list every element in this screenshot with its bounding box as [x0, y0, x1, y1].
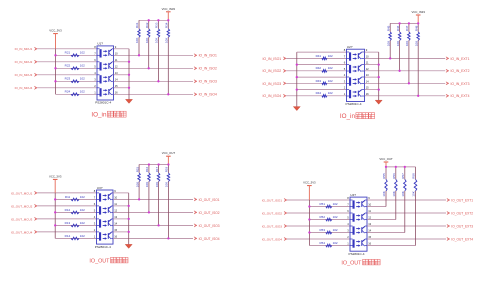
- svg-text:VCC_OUT: VCC_OUT: [162, 151, 176, 155]
- port IO_OUT_EXT4: [447, 237, 473, 241]
- pin numbers left 8..1: [347, 196, 349, 246]
- svg-text:IO_IN_ISO2: IO_IN_ISO2: [199, 67, 217, 71]
- resistor R17 10K: [155, 165, 160, 188]
- wire U pin to pull-up column: [367, 232, 405, 234]
- svg-text:16: 16: [114, 235, 117, 239]
- svg-text:R51: R51: [319, 202, 325, 206]
- wire U pin to IO_OUT_EXT2: [367, 212, 446, 214]
- wire resistor to output row: [167, 37, 169, 94]
- wire rail to resistor R52 row: [309, 219, 350, 221]
- svg-text:10: 10: [115, 51, 118, 55]
- junction: [157, 19, 159, 21]
- svg-text:IO_IN_MCU4: IO_IN_MCU4: [15, 86, 33, 90]
- svg-text:7: 7: [347, 203, 349, 207]
- junction: [398, 22, 400, 24]
- resistor R51 102: [319, 202, 337, 208]
- port IO_OUT_MCU1: [11, 191, 37, 195]
- optocoupler U2 PS2801C-4: [346, 45, 365, 106]
- wire U pin to bus: [114, 87, 130, 89]
- svg-text:PS2801C-4: PS2801C-4: [95, 245, 111, 249]
- junction: [54, 198, 56, 200]
- ground: [375, 100, 382, 104]
- wire U pin to bus: [114, 48, 130, 50]
- resistor R21 102: [65, 51, 85, 57]
- svg-text:R41: R41: [316, 54, 322, 58]
- svg-text:1: 1: [344, 92, 346, 96]
- junction: [296, 63, 298, 65]
- wire rail to resistor R22 row: [56, 67, 98, 69]
- resistor R11 102: [65, 195, 85, 201]
- wire U pin to IO_OUT_EXT1: [367, 199, 446, 201]
- svg-text:R13: R13: [65, 221, 71, 225]
- svg-text:102: 102: [333, 202, 338, 206]
- resistor R44 102: [316, 91, 333, 97]
- optocoupler channel 4: LED + phototransistor: [97, 232, 114, 241]
- svg-text:R16: R16: [145, 166, 149, 172]
- port IO_OUT_MCU3: [11, 217, 37, 221]
- svg-text:5: 5: [94, 64, 96, 68]
- wire resistor to output row: [399, 40, 401, 70]
- junction: [296, 88, 298, 90]
- svg-text:102: 102: [80, 208, 85, 212]
- port IO_IN_MCU4: [15, 86, 38, 90]
- port IO_OUT_ISO1: [262, 198, 287, 202]
- svg-text:R53: R53: [319, 228, 325, 232]
- wire rail to resistor R12 row: [55, 211, 96, 213]
- svg-text:102: 102: [80, 51, 85, 55]
- svg-text:10K: 10K: [165, 182, 169, 187]
- resistor R48 10K: [414, 23, 419, 46]
- wire U pin to IO_OUT_ISO2: [113, 211, 193, 213]
- svg-text:102: 102: [80, 90, 85, 94]
- svg-text:4: 4: [94, 215, 96, 219]
- svg-text:12: 12: [115, 64, 118, 68]
- svg-text:9: 9: [115, 45, 117, 49]
- port IO_IN_MCU1: [15, 47, 38, 51]
- ground: [125, 244, 132, 248]
- pin numbers left 8..1: [344, 48, 346, 96]
- svg-text:IO_IN_ISO1: IO_IN_ISO1: [199, 54, 217, 58]
- wire rail to resistor R51 row: [309, 206, 350, 208]
- svg-text:R42: R42: [316, 66, 322, 70]
- port IO_IN_MCU2: [15, 60, 38, 64]
- port IO_IN_ISO4: [262, 94, 286, 98]
- junction: [148, 211, 150, 213]
- svg-text:4: 4: [347, 222, 349, 226]
- svg-text:10K: 10K: [135, 182, 139, 187]
- svg-text:R15: R15: [135, 166, 139, 172]
- svg-text:4: 4: [344, 73, 346, 77]
- resistor R54 102: [319, 241, 337, 247]
- optocoupler channel 1: LED + phototransistor: [97, 193, 114, 202]
- svg-text:IO_IN_MCU3: IO_IN_MCU3: [15, 73, 33, 77]
- svg-text:10K: 10K: [412, 191, 416, 196]
- svg-text:R33: R33: [155, 22, 159, 28]
- svg-text:6: 6: [347, 209, 349, 213]
- optocoupler channel 1: LED + phototransistor: [347, 52, 365, 61]
- wire rail to resistor R23 row: [56, 80, 98, 82]
- svg-text:VCC_OUT: VCC_OUT: [379, 157, 393, 161]
- resistor R34 10K: [165, 20, 170, 43]
- junction: [389, 57, 391, 59]
- resistor R52 102: [319, 215, 337, 221]
- resistor R15 10K: [135, 165, 140, 188]
- svg-text:4: 4: [94, 71, 96, 75]
- svg-text:3: 3: [344, 79, 346, 83]
- svg-text:102: 102: [328, 91, 333, 95]
- svg-text:5: 5: [94, 209, 96, 213]
- junction: [54, 80, 56, 82]
- ground: [293, 107, 300, 111]
- port IO_IN_ISO1: [194, 54, 217, 58]
- pin numbers left 8..1: [94, 189, 96, 239]
- wire U pin to bus: [365, 89, 379, 91]
- svg-text:IO_in: IO_in: [340, 113, 356, 120]
- wire IO_IN_ISO3 to U pin: [286, 82, 346, 84]
- svg-text:10K: 10K: [165, 38, 169, 43]
- wire resistor to emitter-follower collector: [385, 190, 387, 192]
- junction: [54, 67, 56, 69]
- junction: [148, 67, 150, 69]
- port IO_OUT_ISO3: [262, 224, 287, 228]
- svg-text:5: 5: [347, 216, 349, 220]
- wire U pin to bus: [365, 51, 379, 53]
- svg-text:R55: R55: [382, 173, 386, 179]
- resistor R24 102: [65, 90, 85, 96]
- svg-text:IO_OUT_EXT2: IO_OUT_EXT2: [451, 211, 473, 215]
- wire U pin to bus: [113, 218, 129, 220]
- wire pull-up rail: [139, 164, 168, 166]
- wire pull-up rail: [386, 166, 416, 168]
- svg-text:U1?: U1?: [97, 42, 103, 46]
- junction: [138, 198, 140, 200]
- port IO_OUT_ISO1: [194, 198, 220, 202]
- svg-text:R48: R48: [414, 25, 418, 31]
- junction: [54, 224, 56, 226]
- power VCC_OUT: [379, 157, 393, 167]
- svg-text:R43: R43: [316, 79, 322, 83]
- wire IO_OUT_MCU2 to U pin: [37, 205, 96, 207]
- port IO_IN_EXT1: [446, 57, 470, 61]
- svg-text:13: 13: [366, 73, 369, 77]
- resistor R33 10K: [155, 20, 160, 43]
- node label caption IO_in-isolation-pre: [91, 111, 126, 118]
- svg-text:VCC_3V3: VCC_3V3: [49, 29, 62, 33]
- optocoupler channel 1: LED + phototransistor: [97, 49, 114, 58]
- svg-text:R34: R34: [165, 22, 169, 28]
- wire VCC rail vertical: [55, 49, 57, 95]
- resistor R53 102: [319, 228, 337, 234]
- wire U pin to IO_IN_ISO2: [114, 67, 194, 69]
- optocoupler channel 3: LED + phototransistor: [350, 226, 367, 235]
- svg-text:IO_OUT_ISO1: IO_OUT_ISO1: [262, 198, 283, 202]
- svg-text:5: 5: [344, 67, 346, 71]
- svg-text:12: 12: [368, 216, 371, 220]
- svg-text:2: 2: [347, 235, 349, 239]
- resistor R12 102: [65, 208, 85, 214]
- svg-text:6: 6: [94, 202, 96, 206]
- junction: [157, 163, 159, 165]
- resistor R32 10K: [145, 20, 150, 43]
- wire rail to resistor R53 row: [309, 232, 350, 234]
- power VCC_3V3: [303, 181, 316, 200]
- svg-text:10K: 10K: [145, 38, 149, 43]
- wire IO_OUT_ISO4 to U pin: [287, 238, 350, 240]
- svg-text:R11: R11: [65, 195, 71, 199]
- svg-text:VCC_3V3: VCC_3V3: [303, 181, 316, 185]
- wire resistor to output row: [417, 40, 419, 95]
- svg-text:11: 11: [366, 61, 369, 65]
- wire emitter common bus: [128, 193, 130, 245]
- svg-text:3: 3: [94, 77, 96, 81]
- svg-text:13: 13: [114, 215, 117, 219]
- svg-text:6: 6: [344, 61, 346, 65]
- wire U pin to pull-up column: [367, 245, 416, 247]
- port IO_IN_ISO2: [194, 67, 217, 71]
- junction: [308, 218, 310, 220]
- svg-text:14: 14: [114, 222, 117, 226]
- svg-text:9: 9: [366, 48, 368, 52]
- junction: [404, 166, 406, 168]
- resistor R45 10K: [386, 23, 391, 46]
- junction: [398, 70, 400, 72]
- wire resistor to output row: [167, 182, 169, 239]
- wire IO_OUT_MCU1 to U pin: [37, 192, 96, 194]
- port IO_IN_ISO2: [262, 69, 286, 73]
- svg-text:R31: R31: [135, 22, 139, 28]
- svg-text:10K: 10K: [396, 41, 400, 46]
- svg-text:PS2801C-4: PS2801C-4: [349, 252, 365, 256]
- wire U pin to IO_IN_EXT2: [365, 70, 446, 72]
- junction: [128, 87, 130, 89]
- svg-text:R32: R32: [145, 22, 149, 28]
- node label caption IO_OUT-isolation-pre: [89, 257, 128, 264]
- svg-text:8: 8: [94, 45, 96, 49]
- wire U pin to bus: [113, 205, 129, 207]
- svg-text:11: 11: [115, 58, 118, 62]
- wire IO_IN_ISO1 to U pin: [286, 57, 346, 59]
- wire rail to resistor R14 row: [55, 237, 96, 239]
- optocoupler U4 PS2801C-4: [349, 193, 368, 256]
- svg-text:13: 13: [368, 222, 371, 226]
- junction: [385, 166, 387, 168]
- svg-text:IO_IN_MCU1: IO_IN_MCU1: [15, 47, 33, 51]
- wire emitter common bus: [128, 49, 130, 100]
- wire emitter common bus: [378, 52, 380, 100]
- wire bus to U pin: [297, 64, 347, 66]
- svg-text:12: 12: [114, 209, 117, 213]
- svg-text:IO_IN_ISO3: IO_IN_ISO3: [262, 82, 281, 86]
- svg-text:PS2801C-4: PS2801C-4: [95, 101, 111, 105]
- svg-text:IO_IN_EXT4: IO_IN_EXT4: [451, 94, 470, 98]
- wire IO_OUT_ISO1 to U pin: [287, 199, 350, 201]
- svg-text:9: 9: [114, 189, 116, 193]
- port IO_OUT_ISO4: [194, 237, 220, 241]
- svg-text:IO_OUT_ISO3: IO_OUT_ISO3: [262, 224, 283, 228]
- svg-text:IO_OUT_EXT4: IO_OUT_EXT4: [451, 237, 473, 241]
- port IO_IN_EXT2: [446, 69, 470, 73]
- svg-text:IO_OUT_EXT3: IO_OUT_EXT3: [451, 224, 473, 228]
- port IO_OUT_ISO2: [194, 211, 220, 215]
- wire rail to resistor R21 row: [56, 54, 98, 56]
- wire resistor to output row: [138, 182, 140, 200]
- svg-text:10: 10: [368, 203, 371, 207]
- wire IO_IN_ISO4 to U pin: [286, 95, 346, 97]
- pin numbers right 9..16: [114, 189, 117, 239]
- optocoupler channel 4: LED + phototransistor: [97, 88, 114, 97]
- svg-text:102: 102: [333, 215, 338, 219]
- svg-text:R22: R22: [65, 64, 71, 68]
- optocoupler channel 1: LED + phototransistor: [350, 200, 367, 209]
- wire resistor to output row: [408, 40, 410, 83]
- junction: [395, 166, 397, 168]
- resistor R14 102: [65, 234, 85, 240]
- power VCC_IN33: [162, 7, 176, 20]
- junction: [308, 205, 310, 207]
- resistor R22 102: [65, 64, 85, 70]
- svg-text:15: 15: [115, 84, 118, 88]
- wire bus to U pin: [297, 76, 347, 78]
- wire IO_OUT_MCU3 to U pin: [37, 218, 96, 220]
- svg-text:R56: R56: [392, 173, 396, 179]
- svg-text:12: 12: [366, 67, 369, 71]
- power VCC_OUT: [162, 151, 176, 164]
- wire rail to resistor R11 row: [55, 198, 96, 200]
- junction: [128, 205, 130, 207]
- wire U pin to bus: [114, 74, 130, 76]
- junction: [378, 88, 380, 90]
- wire U pin to IO_OUT_EXT3: [367, 225, 446, 227]
- wire U pin to IO_OUT_ISO3: [113, 224, 193, 226]
- svg-text:R17: R17: [155, 166, 159, 172]
- resistor R42 102: [316, 66, 333, 72]
- svg-text:VCC_IN33: VCC_IN33: [162, 7, 176, 11]
- svg-text:10K: 10K: [405, 41, 409, 46]
- svg-text:2: 2: [94, 84, 96, 88]
- wire U pin to IO_IN_ISO1: [114, 54, 194, 56]
- wire IO_IN_MCU3 to U pin: [37, 74, 97, 76]
- pin numbers right 9..16: [366, 48, 369, 96]
- svg-text:11: 11: [114, 202, 117, 206]
- port IO_OUT_ISO3: [194, 224, 220, 228]
- wire IO_IN_ISO2 to U pin: [286, 70, 346, 72]
- svg-text:IO_IN_MCU2: IO_IN_MCU2: [15, 60, 33, 64]
- wire U pin to IO_OUT_EXT4: [367, 238, 446, 240]
- wire IO_IN_MCU4 to U pin: [37, 87, 97, 89]
- svg-text:R44: R44: [316, 91, 322, 95]
- wire resistor to output row: [158, 182, 160, 226]
- svg-text:R58: R58: [412, 173, 416, 179]
- wire U pin to IO_IN_EXT4: [365, 95, 446, 97]
- wire U pin to bus: [113, 192, 129, 194]
- junction: [128, 218, 130, 220]
- port IO_IN_ISO3: [262, 82, 286, 86]
- port IO_OUT_ISO4: [262, 237, 287, 241]
- port IO_IN_ISO3: [194, 80, 217, 84]
- svg-text:1: 1: [94, 235, 96, 239]
- resistor R56 10K: [392, 167, 397, 197]
- resistor R55 10K: [382, 167, 387, 197]
- junction: [378, 76, 380, 78]
- resistor R23 102: [65, 77, 85, 83]
- power VCC_3V3: [49, 174, 62, 193]
- wire U pin to IO_OUT_ISO1: [113, 198, 193, 200]
- svg-text:10K: 10K: [386, 41, 390, 46]
- svg-text:U4?: U4?: [350, 193, 356, 197]
- svg-text:10: 10: [114, 196, 117, 200]
- wire IO_IN_MCU2 to U pin: [37, 61, 97, 63]
- port IO_OUT_EXT2: [447, 211, 473, 215]
- svg-text:2: 2: [94, 228, 96, 232]
- resistor R13 102: [65, 221, 85, 227]
- svg-text:102: 102: [333, 241, 338, 245]
- pin numbers right 9..16: [368, 196, 371, 246]
- svg-text:7: 7: [344, 55, 346, 59]
- junction: [157, 80, 159, 82]
- svg-text:8: 8: [347, 196, 349, 200]
- optocoupler channel 2: LED + phototransistor: [347, 65, 365, 74]
- svg-text:16: 16: [368, 242, 371, 246]
- svg-text:R24: R24: [65, 90, 71, 94]
- node label caption IO_in-isolation-post: [340, 113, 375, 120]
- svg-text:10K: 10K: [382, 191, 386, 196]
- optocoupler channel 2: LED + phototransistor: [350, 213, 367, 222]
- svg-text:15: 15: [366, 86, 369, 90]
- svg-text:R45: R45: [386, 25, 390, 31]
- junction: [157, 224, 159, 226]
- port IO_IN_EXT4: [446, 94, 470, 98]
- svg-text:102: 102: [80, 221, 85, 225]
- svg-text:10K: 10K: [155, 38, 159, 43]
- wire rail to resistor R13 row: [55, 224, 96, 226]
- svg-text:R23: R23: [65, 77, 71, 81]
- svg-text:102: 102: [333, 228, 338, 232]
- resistor R16 10K: [145, 165, 150, 188]
- svg-text:7: 7: [94, 51, 96, 55]
- junction: [408, 82, 410, 84]
- node label caption IO_OUT-isolation-post: [341, 259, 380, 266]
- wire U pin to IO_IN_EXT1: [365, 57, 446, 59]
- svg-text:IO_IN_EXT1: IO_IN_EXT1: [451, 57, 470, 61]
- svg-text:IO_IN_EXT2: IO_IN_EXT2: [451, 69, 470, 73]
- svg-text:11: 11: [368, 209, 371, 213]
- svg-text:13: 13: [115, 71, 118, 75]
- svg-text:IO_IN_ISO1: IO_IN_ISO1: [262, 57, 281, 61]
- svg-text:R46: R46: [396, 25, 400, 31]
- svg-text:IO_OUT_EXT1: IO_OUT_EXT1: [451, 198, 473, 202]
- svg-text:14: 14: [115, 77, 118, 81]
- wire resistor to output row: [138, 37, 140, 55]
- svg-text:IO_OUT_ISO2: IO_OUT_ISO2: [262, 211, 283, 215]
- junction: [417, 95, 419, 97]
- svg-text:10K: 10K: [135, 38, 139, 43]
- junction: [167, 19, 169, 21]
- svg-text:R47: R47: [405, 25, 409, 31]
- pin numbers left 8..1: [94, 45, 96, 95]
- wire U pin to pull-up column: [367, 219, 396, 221]
- svg-text:IO_OUT_MCU4: IO_OUT_MCU4: [11, 230, 33, 234]
- wire IO_IN_MCU1 to U pin: [37, 48, 97, 50]
- optocoupler U3 PS2801C-4: [95, 186, 113, 249]
- port IO_IN_ISO4: [194, 93, 217, 97]
- svg-text:102: 102: [328, 79, 333, 83]
- port IO_IN_ISO1: [262, 57, 286, 61]
- svg-text:IO_OUT_ISO4: IO_OUT_ISO4: [262, 237, 283, 241]
- svg-text:3: 3: [94, 222, 96, 226]
- junction: [148, 19, 150, 21]
- svg-text:10: 10: [366, 55, 369, 59]
- svg-text:16: 16: [366, 92, 369, 96]
